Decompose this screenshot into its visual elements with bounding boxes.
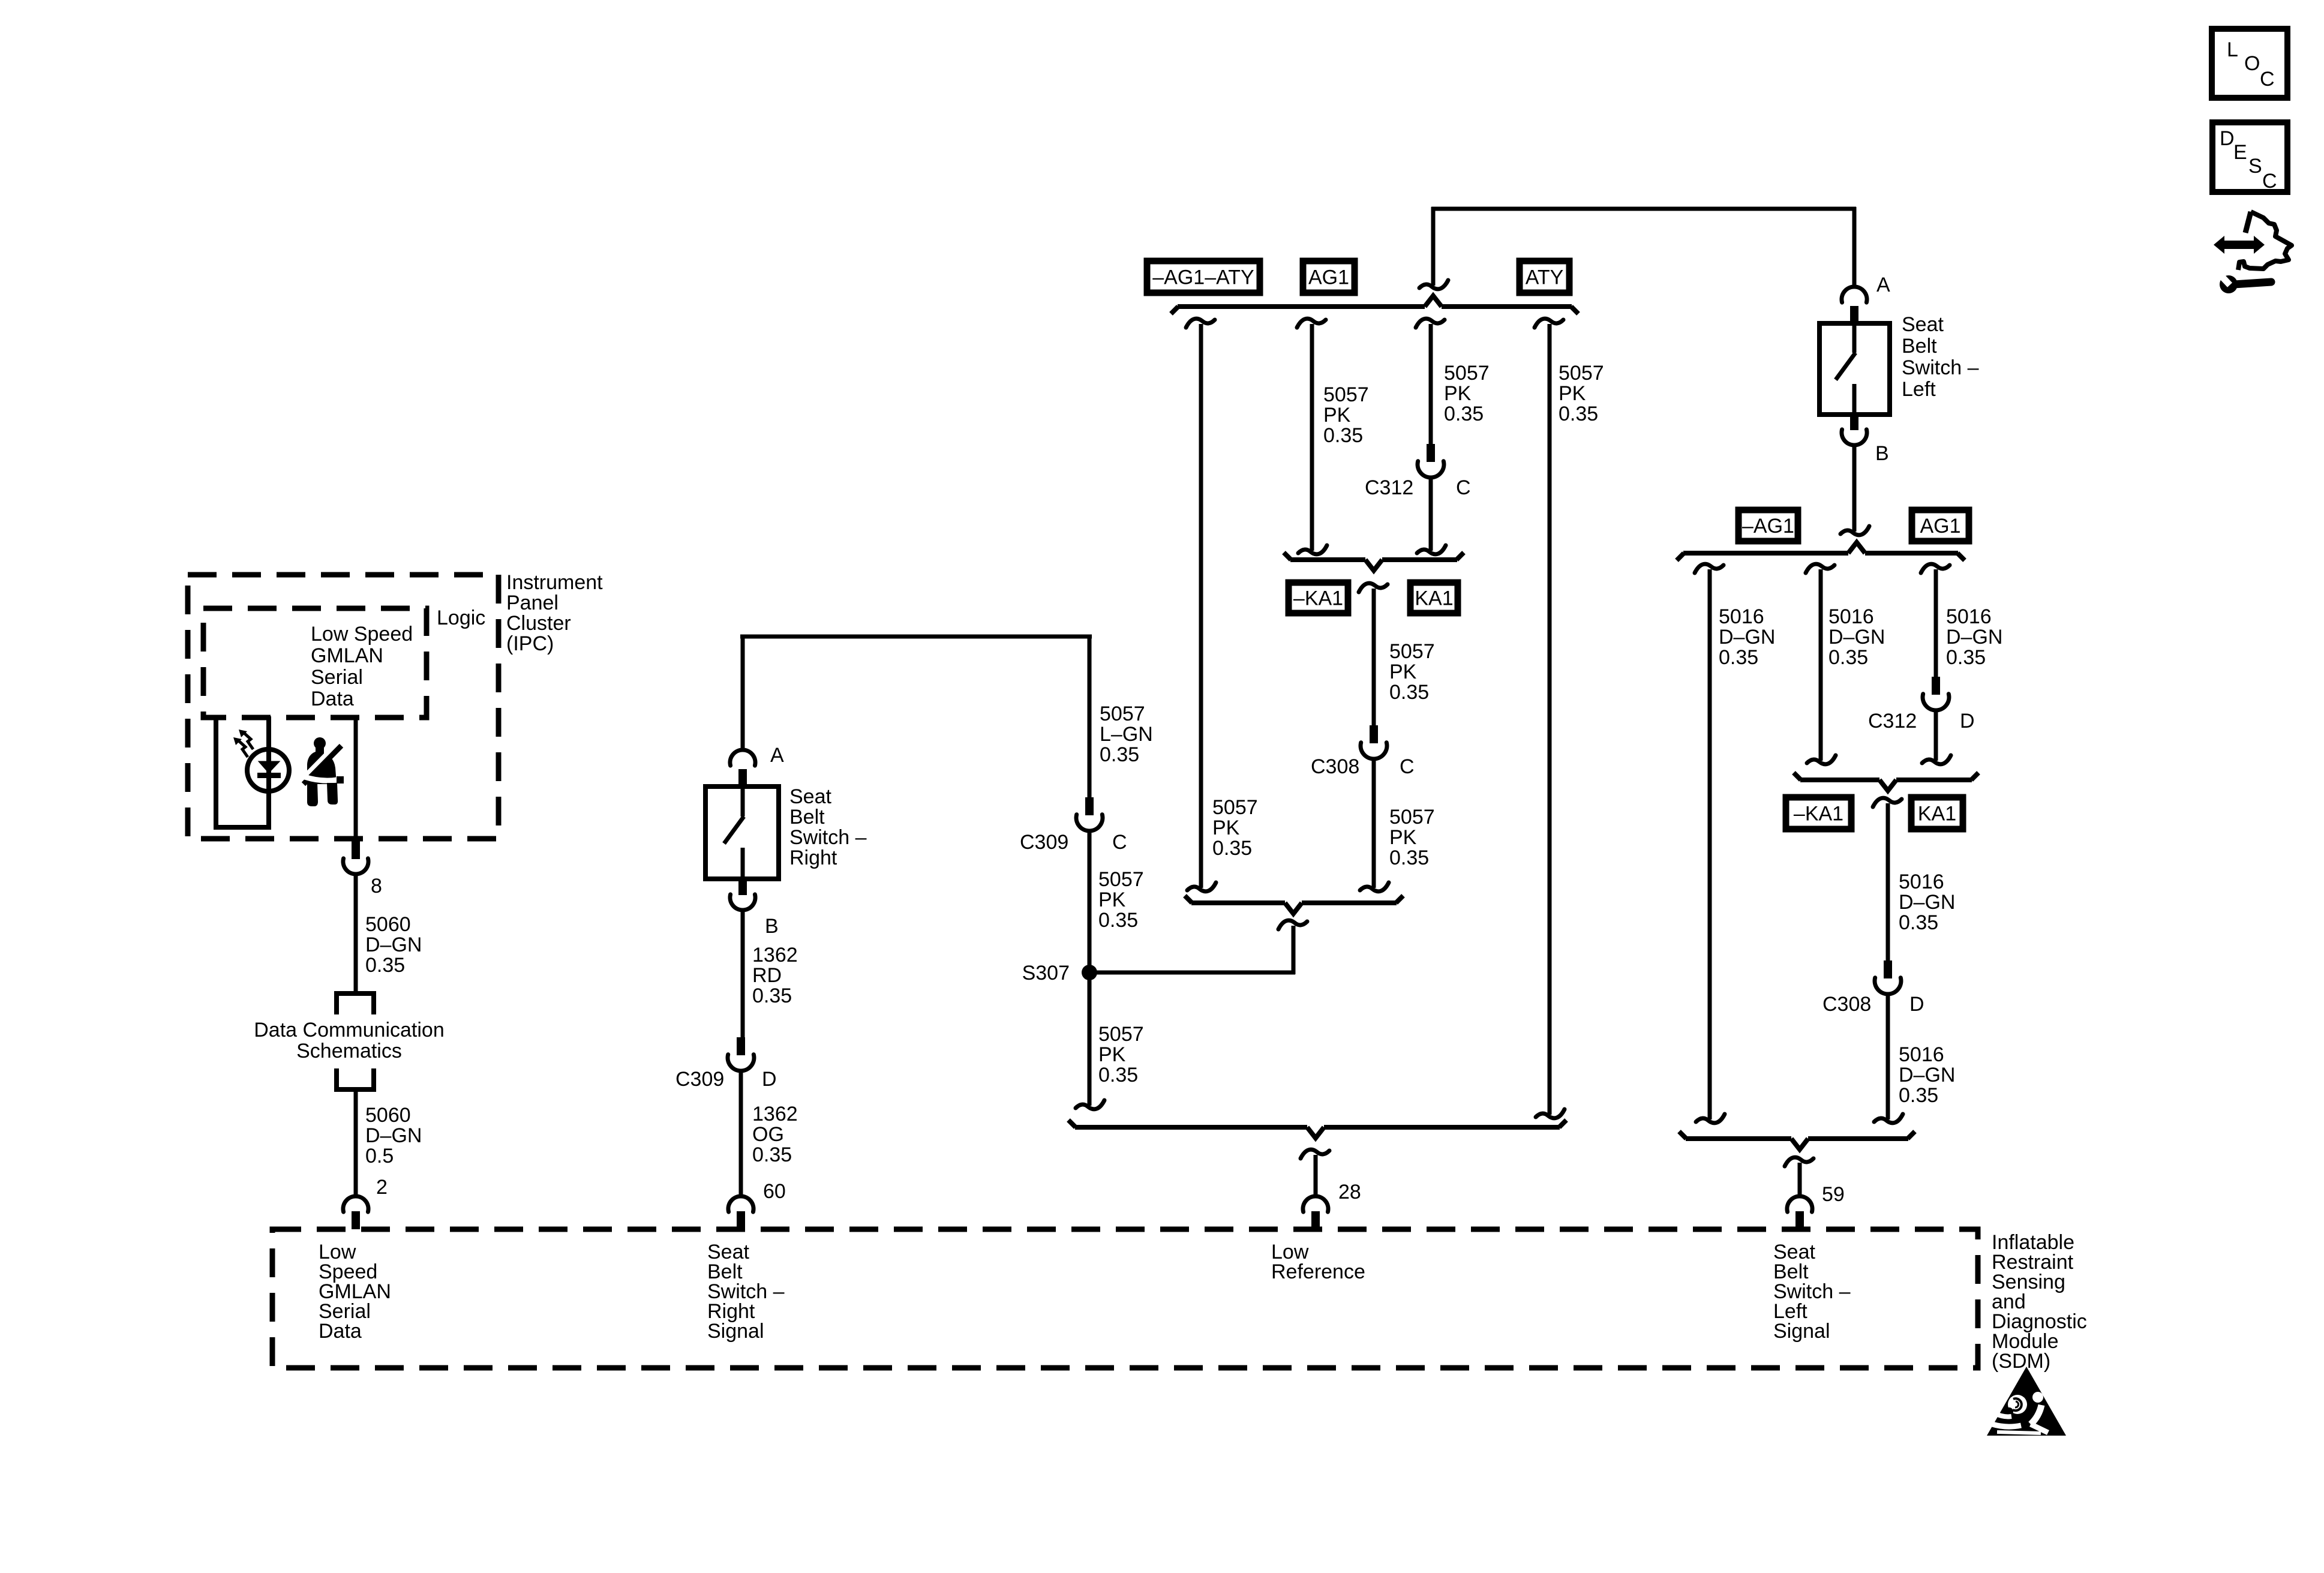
C309 label (D) [675, 1068, 724, 1091]
wire 4 curl (ATY) [1535, 319, 1563, 328]
svg-text:D: D [2220, 127, 2235, 150]
svg-text:5016: 5016 [1946, 605, 1992, 628]
svg-text:Right: Right [789, 846, 837, 869]
pin D label (C308) [1909, 993, 1924, 1016]
connector C308 C [1361, 725, 1387, 759]
Logic label [437, 607, 485, 629]
wire label 5057 PK 0.35 (wire 1) [1212, 796, 1258, 860]
svg-text:0.35: 0.35 [1389, 681, 1429, 704]
svg-text:0.35: 0.35 [1100, 743, 1139, 766]
DESC legend box [2212, 122, 2287, 193]
-KA1 net box (top) [1289, 583, 1348, 613]
wire: S307 to low ref brace [1088, 972, 1092, 1106]
svg-text:AG1: AG1 [1308, 266, 1349, 289]
C308 label (C) [1311, 755, 1359, 778]
svg-text:0.35: 0.35 [1389, 846, 1429, 869]
KA1 net box (top) [1410, 583, 1458, 613]
svg-text:PK: PK [1098, 888, 1126, 911]
svg-text:Panel: Panel [506, 592, 559, 614]
wire L: -AG1 to left signal brace [1708, 569, 1712, 1119]
wire: pin 8 to schematics link [354, 875, 358, 993]
svg-text:0.35: 0.35 [1098, 909, 1138, 932]
svg-text:C: C [1456, 476, 1471, 499]
pin D label (C312) [1960, 710, 1975, 733]
wire label 5057 PK 0.35 (below C308 C) [1389, 806, 1435, 869]
svg-text:0.35: 0.35 [1098, 1064, 1138, 1086]
svg-text:Logic: Logic [437, 607, 485, 629]
wire label 5060 D-GN 0.5 [365, 1104, 422, 1167]
pin 60 connector [728, 1196, 753, 1229]
airbag warning triangle icon [1987, 1367, 2066, 1436]
svg-text:KA1: KA1 [1415, 587, 1453, 610]
pin C label (C309) [1112, 831, 1127, 854]
connector C309 C [1076, 797, 1103, 831]
svg-text:PK: PK [1212, 816, 1240, 839]
svg-text:A: A [770, 744, 784, 767]
svg-text:C: C [2260, 68, 2275, 91]
svg-text:S307: S307 [1022, 962, 1070, 984]
wire: schematics to pin 2 [354, 1089, 358, 1196]
svg-text:GMLAN: GMLAN [311, 644, 383, 667]
wire L end curl [1696, 1114, 1725, 1123]
svg-text:C308: C308 [1311, 755, 1359, 778]
svg-text:RD: RD [752, 964, 782, 987]
svg-text:0.35: 0.35 [752, 1143, 792, 1166]
svg-text:5016: 5016 [1828, 605, 1874, 628]
svg-text:–KA1: –KA1 [1794, 803, 1843, 825]
AG1 net box (right) [1912, 510, 1969, 541]
wire: C309 D to pin 60 [739, 1071, 743, 1196]
wire label 1362 OG 0.35 [752, 1103, 798, 1166]
wire label 5057 PK 0.35 (wire 4) [1559, 362, 1604, 425]
svg-text:Reference: Reference [1271, 1260, 1365, 1283]
seat belt switch - left [1819, 323, 1890, 415]
Low Speed GMLAN Serial Data label (IPC) [311, 623, 413, 710]
svg-text:5060: 5060 [365, 913, 411, 936]
svg-text:Switch –: Switch – [1902, 356, 1979, 379]
svg-text:L: L [2227, 38, 2238, 61]
wire label 5016 D-GN 0.35 (wire L) [1719, 605, 1775, 669]
C309 label (C) [1020, 831, 1068, 854]
wire 4: ATY to low ref brace [1548, 324, 1552, 1115]
svg-text:D–GN: D–GN [1899, 891, 1955, 914]
svg-text:0.35: 0.35 [365, 954, 405, 977]
SDM Seat Belt Switch Right Signal label [707, 1241, 785, 1343]
wire label 5060 D-GN 0.35 [365, 913, 422, 977]
wire 2 end curl [1298, 545, 1327, 554]
svg-text:59: 59 [1822, 1183, 1845, 1206]
KA1 brace (right) [1794, 773, 1978, 791]
wire label 5016 D-GN 0.35 (above C308 D) [1899, 870, 1955, 934]
wire: C308 D to left signal brace [1886, 995, 1890, 1119]
svg-text:5060: 5060 [365, 1104, 411, 1127]
low ref brace curl [1301, 1149, 1329, 1158]
svg-text:(SDM): (SDM) [1992, 1350, 2050, 1373]
svg-text:A: A [1876, 274, 1890, 296]
svg-text:0.35: 0.35 [1719, 646, 1758, 669]
svg-text:Belt: Belt [1902, 335, 1937, 358]
svg-text:D: D [762, 1068, 777, 1091]
wire 3 curl [1416, 319, 1445, 328]
KA1 right wire curl [1873, 798, 1902, 807]
svg-text:5016: 5016 [1899, 1043, 1944, 1066]
wire R curl [1921, 564, 1950, 573]
wire: pin B to AG1 brace [1852, 446, 1857, 532]
svg-text:Low Speed: Low Speed [311, 623, 413, 646]
wire: pin B to C309 D [741, 911, 745, 1037]
photodiode LED indicator [214, 716, 289, 827]
svg-text:C312: C312 [1365, 476, 1413, 499]
svg-text:AG1: AG1 [1920, 515, 1960, 538]
connector C308 D [1875, 960, 1901, 994]
svg-text:5016: 5016 [1899, 870, 1944, 893]
AG1 brace curl [1840, 526, 1869, 535]
svg-text:Instrument: Instrument [506, 571, 603, 594]
ATY net box [1520, 261, 1569, 293]
seat belt switch - right [705, 786, 779, 879]
svg-text:O: O [2244, 52, 2260, 75]
seat belt telltale icon [298, 737, 344, 806]
wire label 5016 D-GN 0.35 (wire R) [1946, 605, 2002, 669]
pin B label (left switch) [1875, 442, 1889, 465]
svg-text:0.5: 0.5 [365, 1145, 394, 1167]
svg-text:0.35: 0.35 [1444, 403, 1484, 425]
connector C309 D [728, 1037, 754, 1071]
pin A label (right switch) [770, 744, 784, 767]
C308 D wire end curl [1874, 1114, 1903, 1123]
wire R end curl [1922, 755, 1951, 764]
svg-text:C: C [1112, 831, 1127, 854]
wire 2 curl (AG1) [1297, 319, 1326, 328]
wire: top link right-switch to C309 C [740, 635, 1092, 639]
svg-text:0.35: 0.35 [1323, 424, 1363, 447]
svg-text:D–GN: D–GN [1899, 1064, 1955, 1086]
svg-text:PK: PK [1323, 404, 1351, 427]
IPC module dashed box [188, 575, 499, 839]
svg-text:ATY: ATY [1526, 266, 1564, 289]
svg-text:D–GN: D–GN [365, 933, 422, 956]
svg-text:1362: 1362 [752, 944, 798, 966]
-AG1 net box (right) [1739, 510, 1798, 541]
svg-text:C308: C308 [1822, 993, 1871, 1016]
-AG1-ATY net box [1147, 261, 1260, 293]
svg-text:D–GN: D–GN [365, 1124, 422, 1147]
svg-text:–AG1: –AG1 [1742, 515, 1794, 538]
Data Communication Schematics label [254, 1019, 444, 1062]
svg-text:–KA1: –KA1 [1293, 587, 1343, 610]
svg-text:5057: 5057 [1389, 806, 1435, 828]
SDM Low Speed GMLAN Serial Data label [319, 1241, 391, 1343]
left signal brace curl [1785, 1157, 1813, 1166]
wire 4 end curl [1536, 1109, 1565, 1118]
middle brace [1185, 896, 1403, 914]
svg-text:PK: PK [1389, 661, 1417, 683]
C308 C wire end curl [1360, 882, 1389, 891]
wire label 5057 PK 0.35 (wire 3) [1444, 362, 1490, 425]
data communication link top bracket [337, 993, 374, 1014]
wire M curl [1806, 564, 1834, 573]
wire: KA1 right to C308 D [1886, 803, 1890, 960]
Seat Belt Switch Left name label [1902, 313, 1979, 401]
svg-text:Signal: Signal [707, 1320, 764, 1343]
svg-text:(IPC): (IPC) [506, 632, 554, 655]
wire label 5016 D-GN 0.35 (wire M) [1828, 605, 1885, 669]
wire: C309 C drop [1088, 635, 1092, 797]
pin 8 connector [343, 840, 368, 874]
wire R: to C312 D [1934, 569, 1938, 677]
svg-text:5057: 5057 [1559, 362, 1604, 385]
LOC legend box [2212, 29, 2287, 98]
svg-text:Seat: Seat [1902, 313, 1944, 336]
wire: switch right pin A riser [741, 635, 745, 751]
svg-text:5057: 5057 [1212, 796, 1258, 819]
wire: S307 to middle brace [1089, 926, 1295, 974]
svg-text:Data Communication: Data Communication [254, 1019, 444, 1041]
KA1 wire curl [1359, 583, 1388, 592]
wire L curl [1695, 564, 1724, 573]
wire: C309 C to S307 [1088, 831, 1092, 972]
svg-text:D–GN: D–GN [1828, 626, 1885, 649]
svg-text:D: D [1960, 710, 1975, 733]
connector C312 D [1923, 677, 1949, 710]
svg-text:5057: 5057 [1444, 362, 1490, 385]
connector C312 C [1418, 444, 1444, 478]
svg-text:Serial: Serial [311, 666, 363, 689]
wire 2: AG1 to KA1 brace [1310, 324, 1314, 551]
svg-text:C: C [2262, 170, 2277, 193]
wire 1: -AG1-ATY to middle brace [1199, 324, 1203, 888]
svg-text:Schematics: Schematics [296, 1040, 402, 1062]
svg-text:0.35: 0.35 [1899, 1084, 1938, 1107]
switch right pin A connector [730, 750, 755, 786]
C308 label (D) [1822, 993, 1871, 1016]
svg-text:B: B [1875, 442, 1889, 465]
pin D label (C309) [762, 1068, 777, 1091]
svg-text:C312: C312 [1868, 710, 1917, 733]
svg-text:Seat: Seat [789, 785, 831, 808]
svg-text:C: C [1400, 755, 1415, 778]
top run wire [1431, 207, 1856, 211]
svg-text:5057: 5057 [1098, 1023, 1144, 1046]
svg-text:2: 2 [376, 1176, 388, 1199]
wire: low ref brace to pin 28 [1314, 1155, 1318, 1196]
svg-text:PK: PK [1098, 1043, 1126, 1066]
svg-text:–AG1–ATY: –AG1–ATY [1152, 266, 1254, 289]
service double-arrow and wrench icon [2214, 212, 2292, 293]
svg-text:OG: OG [752, 1123, 784, 1146]
top brace curl [1419, 280, 1448, 289]
svg-text:PK: PK [1444, 382, 1472, 405]
svg-text:8: 8 [371, 875, 382, 897]
wire: C308 C to middle brace [1372, 760, 1376, 888]
wire R: C312 D to KA1 brace right [1934, 711, 1938, 761]
wire M end curl [1807, 755, 1836, 764]
wire 3: to C312 C [1429, 324, 1433, 444]
svg-text:5057: 5057 [1098, 868, 1144, 891]
svg-text:0.35: 0.35 [1212, 837, 1252, 860]
pin 2 label [376, 1176, 388, 1199]
svg-text:Data: Data [311, 688, 354, 710]
SDM module name label [1992, 1231, 2087, 1373]
svg-text:Switch –: Switch – [789, 826, 867, 849]
svg-text:D–GN: D–GN [1946, 626, 2002, 649]
switch left pin A connector [1842, 287, 1867, 323]
pin 28 label [1338, 1181, 1361, 1203]
svg-text:5057: 5057 [1100, 703, 1145, 725]
KA1 brace (top) [1284, 553, 1464, 571]
svg-text:B: B [765, 915, 779, 938]
wire label 5057 PK 0.35 (below S307) [1098, 1023, 1144, 1086]
wire label 5057 PK 0.35 (below C309 C) [1098, 868, 1144, 932]
svg-text:5057: 5057 [1323, 383, 1369, 406]
svg-text:Left: Left [1902, 378, 1936, 401]
C312 label (D) [1868, 710, 1917, 733]
-KA1 net box (right) [1786, 797, 1851, 829]
C312 label (C) [1365, 476, 1413, 499]
wire M: to KA1 brace right [1819, 569, 1823, 761]
top brace (-AG1-ATY AG1 ATY) [1171, 296, 1578, 314]
svg-text:C309: C309 [1020, 831, 1068, 854]
svg-text:0.35: 0.35 [1828, 646, 1868, 669]
wire: brace to pin 59 [1798, 1163, 1802, 1196]
svg-text:S: S [2248, 155, 2262, 178]
svg-text:Belt: Belt [789, 806, 825, 828]
SDM Seat Belt Switch Left Signal label [1773, 1241, 1851, 1343]
wire: riser to switch left pin A [1852, 207, 1857, 288]
svg-text:D–GN: D–GN [1719, 626, 1775, 649]
pin 59 label [1822, 1183, 1845, 1206]
svg-text:28: 28 [1338, 1181, 1361, 1203]
S307 wire end curl [1076, 1100, 1104, 1109]
svg-text:D: D [1909, 993, 1924, 1016]
svg-text:L–GN: L–GN [1100, 723, 1153, 746]
middle brace curl [1278, 920, 1307, 929]
svg-text:Signal: Signal [1773, 1320, 1830, 1343]
wire 1 end curl [1187, 882, 1216, 891]
wire 3 end curl [1417, 545, 1446, 554]
wire label 5057 L-GN 0.35 [1100, 703, 1153, 766]
svg-text:0.35: 0.35 [1946, 646, 1986, 669]
wire 1 curl (-AG1-ATY) [1186, 319, 1215, 328]
wire label 1362 RD 0.35 [752, 944, 798, 1007]
splice S307 [1082, 965, 1097, 980]
Logic dashed box [203, 608, 427, 718]
data communication link bottom bracket [337, 1068, 374, 1089]
pin 60 label [763, 1180, 786, 1203]
svg-text:0.35: 0.35 [1899, 911, 1938, 934]
svg-text:0.35: 0.35 [1559, 403, 1598, 425]
SDM Low Reference label [1271, 1241, 1365, 1283]
pin 8 label [371, 875, 382, 897]
pin C label (C312) [1456, 476, 1471, 499]
svg-text:PK: PK [1389, 826, 1417, 849]
svg-text:PK: PK [1559, 382, 1586, 405]
wire: logic to pin 8 [354, 718, 358, 840]
wire: KA1 brace to C308 C [1372, 589, 1376, 725]
switch left pin B connector [1842, 415, 1867, 445]
pin 59 connector [1787, 1196, 1812, 1229]
AG1 brace (right) [1677, 542, 1965, 560]
SDM module dashed box [272, 1229, 1978, 1368]
svg-text:5016: 5016 [1719, 605, 1764, 628]
pin 2 connector [343, 1196, 368, 1229]
svg-text:1362: 1362 [752, 1103, 798, 1125]
switch right pin B connector [730, 879, 755, 910]
wire label 5016 D-GN 0.35 (below C308 D) [1899, 1043, 1955, 1107]
IPC name label [506, 571, 603, 655]
low reference brace [1068, 1120, 1566, 1138]
wire label 5057 PK 0.35 (above C308 C) [1389, 640, 1435, 704]
KA1 net box (right) [1911, 797, 1963, 829]
wire: net riser to top run [1431, 207, 1436, 286]
svg-text:E: E [2233, 141, 2247, 164]
pin C label (C308) [1400, 755, 1415, 778]
pin 28 connector [1303, 1196, 1328, 1229]
Seat Belt Switch Right name label [789, 785, 867, 869]
wire label 5057 PK 0.35 (wire 2) [1323, 383, 1369, 447]
pin B label (right switch) [765, 915, 779, 938]
svg-text:60: 60 [763, 1180, 786, 1203]
AG1 net box (top) [1303, 261, 1355, 293]
S307 label [1022, 962, 1070, 984]
left signal brace [1679, 1131, 1915, 1149]
svg-text:Cluster: Cluster [506, 612, 571, 635]
svg-text:0.35: 0.35 [752, 984, 792, 1007]
wire 3: C312 C to KA1 brace [1429, 478, 1433, 551]
svg-text:KA1: KA1 [1918, 803, 1956, 825]
svg-text:5057: 5057 [1389, 640, 1435, 663]
svg-text:C309: C309 [675, 1068, 724, 1091]
svg-text:Data: Data [319, 1320, 362, 1343]
pin A label (left switch) [1876, 274, 1890, 296]
